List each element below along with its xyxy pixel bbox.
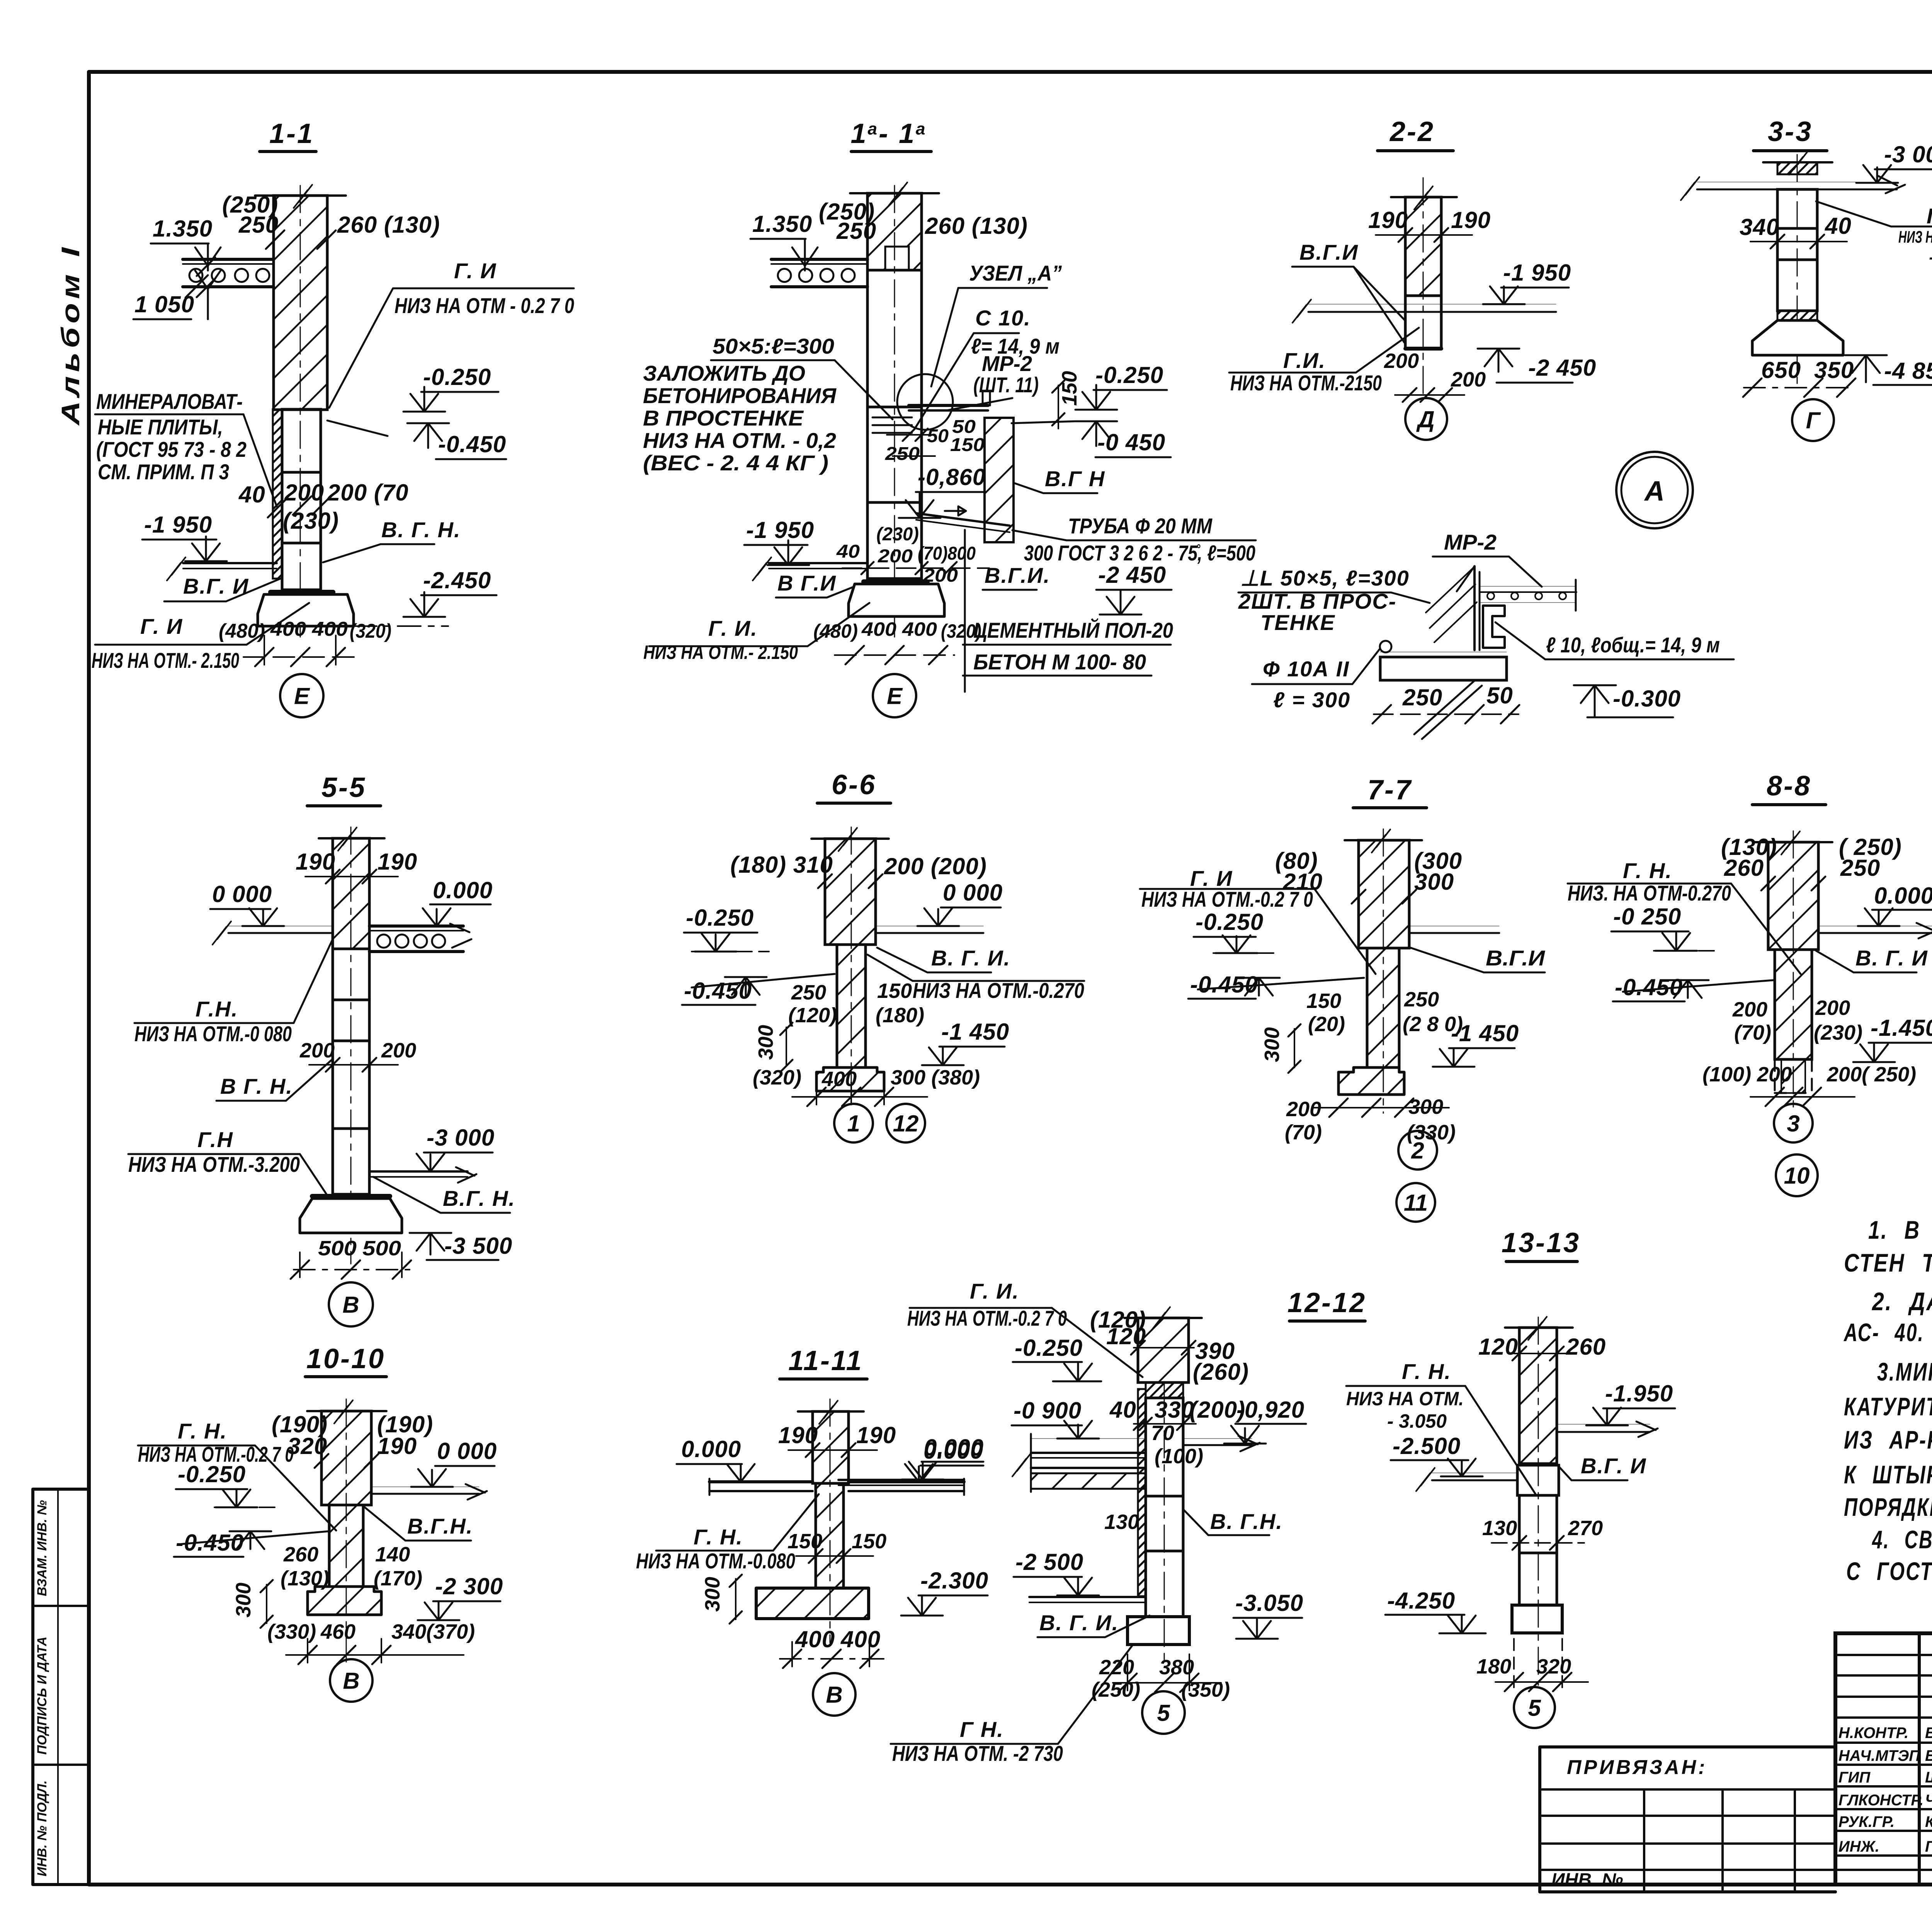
svg-text:НИЗ НА ОТМ.-0.080: НИЗ НА ОТМ.-0.080 [636,1549,795,1573]
svg-text:В.Г.И: В.Г.И [1486,946,1546,970]
svg-text:-0.300: -0.300 [1613,686,1681,712]
svg-text:150: 150 [852,1530,886,1553]
section 13-13 footing [1512,1605,1562,1633]
section 7-7 footing [1338,1067,1404,1095]
svg-text:250: 250 [791,981,826,1004]
section 13-13 blocks [1517,1465,1559,1495]
svg-text:250: 250 [1840,855,1880,881]
svg-text:В: В [342,1292,359,1318]
svg-text:- 3.050: - 3.050 [1387,1410,1447,1432]
svg-text:(230): (230) [1814,1021,1862,1044]
svg-text:Е: Е [294,683,310,709]
section 2-2 lower block [1405,347,1441,351]
svg-text:(70): (70) [1285,1121,1322,1144]
svg-text:(100) 200: (100) 200 [1702,1063,1792,1086]
svg-text:ГАДЛГОСК.Я: ГАДЛГОСК.Я [1925,1838,1932,1855]
section 2-2 column hatched [1405,197,1441,296]
svg-text:2ШТ. В ПРОС-: 2ШТ. В ПРОС- [1238,589,1396,613]
svg-text:Г. Н.: Г. Н. [694,1525,743,1549]
svg-text:Альбом I: Альбом I [56,243,85,426]
svg-text:Г. Н.: Г. Н. [1402,1359,1451,1384]
svg-text:-3 200: -3 200 [1929,248,1932,267]
svg-text:340(370): 340(370) [391,1620,475,1643]
section 1a-1a wall below slab [867,270,922,407]
svg-text:320: 320 [1536,1655,1571,1678]
svg-text:ГЛКОНСТР.: ГЛКОНСТР. [1838,1792,1923,1809]
svg-text:300 (380): 300 (380) [891,1066,980,1089]
svg-text:(480): (480) [813,620,858,642]
svg-text:200: 200 [878,546,913,567]
section 3-3 column top [1763,161,1832,163]
section 7-7 wall hatched [1359,840,1409,948]
svg-text:(230): (230) [283,508,339,534]
svg-text:МР-2: МР-2 [1444,530,1497,554]
svg-text:КОЛУШЕВА: КОЛУШЕВА [1925,1813,1932,1830]
svg-text:1: 1 [847,1111,860,1137]
svg-text:НИЗ НА ОТМ.-0.270: НИЗ НА ОТМ.-0.270 [913,978,1084,1003]
svg-text:-1.450: -1.450 [1871,1015,1932,1041]
svg-text:УЗЕЛ „А”: УЗЕЛ „А” [969,261,1062,285]
svg-text:-2 450: -2 450 [1098,562,1166,588]
svg-text:-0 450: -0 450 [1097,429,1165,455]
section 12-12 ground left lower [1029,1596,1146,1598]
svg-text:250: 250 [238,212,279,238]
section 8-8 dashed continuation [1775,1059,1812,1093]
svg-text:250: 250 [1402,684,1442,710]
svg-text:11-11: 11-11 [788,1345,863,1376]
svg-text:-0.250: -0.250 [1095,362,1163,388]
section 6-6 right slab [876,926,983,926]
svg-text:260: 260 [1566,1334,1606,1360]
svg-text:200: 200 [381,1039,416,1062]
svg-text:Ф 10А II: Ф 10А II [1263,657,1350,681]
svg-text:190: 190 [296,849,335,875]
svg-text:НИЗ НА ОТМ - 0.2 7 0: НИЗ НА ОТМ - 0.2 7 0 [395,293,574,318]
section 1a-1a MP-2 plate [909,404,988,407]
svg-text:-3 500: -3 500 [444,1233,512,1259]
svg-text:БЕГАНСКАЯ: БЕГАНСКАЯ [1925,1747,1932,1764]
svg-text:В. Г.Н.: В. Г.Н. [1210,1509,1283,1534]
svg-text:(70): (70) [1734,1021,1771,1044]
svg-text:В.Г. И: В.Г. И [183,574,249,598]
svg-text:300: 300 [754,1025,777,1060]
section 7-7 lower column hatched [1367,948,1399,1067]
svg-text:⊥L 50×5, ℓ=300: ⊥L 50×5, ℓ=300 [1240,566,1410,590]
svg-text:-0,920: -0,920 [1236,1397,1304,1423]
section 11-11 footing [756,1588,869,1619]
svg-text:1.350: 1.350 [752,211,812,237]
section 5-5 footing [312,1194,390,1199]
section 10-10 axis circle V [330,1659,372,1702]
detail slab right [1480,586,1577,587]
svg-text:(170): (170) [374,1567,422,1590]
svg-text:Г.Н: Г.Н [197,1127,233,1152]
detail standing plate [1473,566,1476,650]
section 6-6 lower column hatched [837,945,866,1067]
section 8-8 axis circles 3 10 [1774,1104,1813,1142]
svg-text:ИНВ. № ПОДЛ.: ИНВ. № ПОДЛ. [35,1780,49,1876]
svg-text:Г. И.: Г. И. [970,1279,1019,1303]
svg-text:НИЗ НА ОТМ.-0.2 7 0: НИЗ НА ОТМ.-0.2 7 0 [907,1306,1067,1330]
section 8-8 right slab [1818,926,1932,926]
svg-text:3-3: 3-3 [1768,116,1813,147]
svg-text:-4 850: -4 850 [1884,358,1932,384]
section 1-1 foundation blocks [282,409,321,472]
svg-text:НАЧ.МТЭП: НАЧ.МТЭП [1838,1747,1920,1764]
svg-text:-1 950: -1 950 [1503,260,1571,286]
svg-text:ГИП: ГИП [1838,1769,1871,1786]
section 11-11 axis circle V [813,1673,855,1716]
svg-text:250: 250 [1404,988,1439,1011]
section 3-3 slab crossing [1697,182,1897,182]
svg-text:270: 270 [1568,1517,1603,1540]
section 1a-1a floor slab left [771,258,867,261]
svg-text:250: 250 [836,218,876,244]
svg-text:260 (130): 260 (130) [337,212,440,238]
svg-text:ЗАЛОЖИТЬ ДО: ЗАЛОЖИТЬ ДО [643,361,805,385]
svg-text:НИЗ НА ОТМ.: НИЗ НА ОТМ. [1346,1388,1464,1410]
svg-text:460: 460 [320,1620,355,1643]
svg-text:РУК.ГР.: РУК.ГР. [1838,1813,1895,1830]
svg-text:1.350: 1.350 [153,216,213,242]
svg-text:7-7: 7-7 [1367,775,1412,805]
svg-text:В.Г.И: В.Г.И [1299,240,1359,264]
svg-text:МИНЕРАЛОВАТ-: МИНЕРАЛОВАТ- [96,389,243,414]
svg-text:В.Г.Н.: В.Г.Н. [407,1514,473,1538]
svg-text:В.Г.И.: В.Г.И. [985,563,1050,587]
section 3-3 axis circle G [1792,399,1834,441]
svg-text:НИЗ НА ОТМ.- 2.150: НИЗ НА ОТМ.- 2.150 [92,648,239,672]
svg-text:3: 3 [1787,1111,1799,1137]
section 11-11 slab band [709,1480,813,1483]
svg-text:5-5: 5-5 [321,772,366,803]
svg-text:ВЗАМ. ИНВ. №: ВЗАМ. ИНВ. № [35,1500,49,1596]
svg-text:-3 000: -3 000 [427,1125,495,1151]
svg-text:0 000: 0 000 [437,1438,497,1464]
svg-text:(ГОСТ 95 73 - 8 2: (ГОСТ 95 73 - 8 2 [96,437,247,461]
svg-text:-0 900: -0 900 [1014,1398,1082,1423]
svg-text:(320): (320) [350,620,391,642]
svg-text:200: 200 [1451,368,1486,391]
svg-text:(100): (100) [1155,1445,1203,1468]
svg-text:130: 130 [1482,1517,1517,1540]
svg-text:В.Г. Н.: В.Г. Н. [443,1186,515,1210]
svg-text:350: 350 [1814,357,1854,383]
svg-text:180: 180 [1476,1655,1511,1678]
svg-text:8-8: 8-8 [1767,771,1811,802]
section 1-1 floor slab left [183,258,274,261]
svg-text:БУХАРИНА: БУХАРИНА [1925,1725,1932,1742]
svg-text:500: 500 [318,1237,357,1260]
svg-text:190: 190 [856,1422,896,1448]
svg-text:4. СВАРКУ ПРОИЗВОДИТЬ ЭЛЕКТРОД: 4. СВАРКУ ПРОИЗВОДИТЬ ЭЛЕКТРОДАМИ ТИП Э-… [1872,1525,1932,1554]
svg-text:-4.250: -4.250 [1387,1588,1455,1614]
section 1-1 axis circle E [280,674,323,717]
svg-text:ЧЕРНЕЦКИЙ: ЧЕРНЕЦКИЙ [1925,1791,1932,1809]
svg-text:6-6: 6-6 [832,770,876,800]
svg-text:340: 340 [1740,214,1779,240]
section 1a-1a pier hatched [985,418,1014,542]
svg-text:300: 300 [1414,869,1454,895]
svg-text:Н.КОНТР.: Н.КОНТР. [1838,1725,1908,1742]
svg-text:НИЗ. НА ОТМ-0.270: НИЗ. НА ОТМ-0.270 [1568,881,1731,905]
svg-text:Г. Н.: Г. Н. [1623,858,1672,883]
svg-text:2-2: 2-2 [1389,116,1435,147]
svg-text:В Г. Н.: В Г. Н. [220,1074,293,1098]
section 10-10 lower column hatched [329,1505,363,1587]
svg-text:250: 250 [885,444,920,464]
section 6-6 footing [816,1067,884,1091]
svg-text:-0.250: -0.250 [1196,909,1264,935]
svg-text:МР-2: МР-2 [982,351,1032,376]
svg-text:0.000: 0.000 [1874,883,1932,909]
detail hatch diagonals [1426,568,1477,642]
svg-text:СТЕН ТОЛЩИНОЙ 380 ММ,: СТЕН ТОЛЩИНОЙ 380 ММ, [1844,1248,1932,1277]
svg-text:200: 200 [299,1039,335,1062]
svg-text:В. Г. И.: В. Г. И. [1039,1611,1119,1635]
svg-text:190: 190 [778,1422,818,1448]
section 1-1 center axis [300,186,301,642]
svg-text:Е: Е [887,683,903,709]
svg-text:50: 50 [927,426,949,446]
section 13-13 right slab [1557,1424,1650,1425]
section 12-12 insulation strip [1138,1389,1146,1596]
svg-text:190: 190 [1368,207,1408,233]
svg-text:(180): (180) [876,1004,924,1027]
svg-text:2. ДАННЫЙ ЛИСТ СМОТРЕТЬ СОВМЕС: 2. ДАННЫЙ ЛИСТ СМОТРЕТЬ СОВМЕСТНО С ЛИСТ… [1871,1287,1932,1316]
svg-text:-1.950: -1.950 [1605,1381,1673,1406]
section 8-8 wall hatched [1768,842,1818,950]
section 6-6 niz na otm -0.270 [913,980,1084,982]
svg-text:130: 130 [1104,1510,1139,1534]
svg-text:Г. И: Г. И [454,259,497,283]
svg-text:ℓ = 300: ℓ = 300 [1273,688,1350,712]
svg-text:40: 40 [836,541,860,562]
section 12-12 upper wall hatched [1138,1318,1189,1382]
svg-text:-0.250: -0.250 [1015,1335,1083,1361]
section 10-10 wall hatched [321,1411,371,1505]
svg-text:300: 300 [1260,1027,1284,1062]
svg-text:В Г.И: В Г.И [777,571,837,595]
detail channel C10 [1483,606,1505,648]
svg-text:150: 150 [877,979,912,1003]
svg-text:500: 500 [362,1237,401,1260]
section 6-6 axis circles 1 12 [834,1104,873,1142]
section 12-12 narrow column [1146,1382,1183,1398]
svg-text:(20): (20) [1308,1013,1345,1036]
svg-text:ЦЕМЕНТНЫЙ ПОЛ-20: ЦЕМЕНТНЫЙ ПОЛ-20 [973,618,1173,642]
svg-text:БЕТОН М 100- 80: БЕТОН М 100- 80 [973,650,1146,674]
section 5-5 column hatched [333,838,369,949]
svg-text:1а- 1а: 1а- 1а [850,118,927,149]
svg-text:1-1: 1-1 [269,118,314,149]
svg-text:200: 200 [1815,996,1850,1020]
svg-text:12: 12 [893,1111,919,1137]
svg-text:В ПРОСТЕНКЕ: В ПРОСТЕНКЕ [643,406,804,430]
svg-text:40: 40 [1825,213,1852,239]
privyazan block [1540,1747,1835,1892]
svg-text:НИЗ НА ОТМ. -2 730: НИЗ НА ОТМ. -2 730 [892,1741,1063,1765]
svg-text:НИЗ НА ОТМ.-3.200: НИЗ НА ОТМ.-3.200 [128,1152,300,1176]
section 5-5 slab right hollow [369,924,463,928]
svg-text:-2.450: -2.450 [423,567,491,593]
svg-text:2: 2 [1411,1138,1424,1164]
svg-text:Д: Д [1416,407,1434,432]
svg-text:400 400: 400 400 [861,618,937,640]
svg-text:11: 11 [1404,1190,1428,1216]
svg-text:0 000: 0 000 [943,880,1003,906]
svg-text:-1 950: -1 950 [144,512,212,538]
svg-text:-2 300: -2 300 [435,1573,503,1599]
svg-text:(350): (350) [1181,1678,1230,1701]
svg-text:3.МИНЕРАЛОВАТНЫЕ ПЛИТЫ НН САНТ: 3.МИНЕРАЛОВАТНЫЕ ПЛИТЫ НН САНТЕХНИЧЕСКОМ… [1877,1357,1932,1386]
svg-text:-0,860: -0,860 [918,464,986,490]
svg-text:(ВЕС - 2. 4 4 КГ ): (ВЕС - 2. 4 4 КГ ) [643,451,828,475]
svg-text:НЫЕ ПЛИТЫ,: НЫЕ ПЛИТЫ, [98,415,223,439]
detail bottom plate [1380,652,1507,652]
section 2-2 column lower white [1405,296,1441,349]
svg-text:40: 40 [238,482,265,507]
svg-text:0.000: 0.000 [924,1435,984,1461]
svg-text:(260): (260) [1193,1359,1249,1385]
svg-text:ИНВ. №: ИНВ. № [1551,1870,1623,1890]
svg-text:АС- 40.: АС- 40. [1844,1318,1924,1347]
svg-text:КАТУРИТЬ ЦЕМЕНТНО-ПЕСЧАНЫМ РАС: КАТУРИТЬ ЦЕМЕНТНО-ПЕСЧАНЫМ РАСТВОРОМ М10… [1844,1392,1932,1421]
section 1-1 wall column hatched [274,196,327,410]
section 1-1 ground line left [183,562,277,564]
svg-text:140: 140 [375,1543,410,1566]
svg-text:0.000: 0.000 [681,1436,741,1462]
svg-text:-0.250: -0.250 [423,364,491,390]
section 6-6 wall hatched [825,839,876,945]
svg-text:50×5:ℓ=300: 50×5:ℓ=300 [713,334,834,358]
svg-text:-2.500: -2.500 [1393,1433,1461,1459]
svg-text:70: 70 [1151,1422,1174,1445]
section 2-2 slab [1308,304,1556,305]
svg-text:200 (70: 200 (70 [327,480,409,506]
section 13-13 column hatched [1519,1328,1557,1464]
section 12-12 left floor slabs [1031,1438,1146,1439]
svg-text:ℓ 10, ℓобщ.= 14, 9 м: ℓ 10, ℓобщ.= 14, 9 м [1546,633,1720,657]
svg-text:НИЗ НА ОТМ.-0.2 7 0: НИЗ НА ОТМ.-0.2 7 0 [1141,887,1313,911]
section 8-8 lower column hatched [1775,950,1812,1059]
svg-text:ИЗ АР-РЫ Ф2ММ С ЯЧЕЙКОЙ 20×20: ИЗ АР-РЫ Ф2ММ С ЯЧЕЙКОЙ 20×20 - ВЕС 1М² … [1844,1425,1932,1454]
svg-text:150: 150 [787,1530,822,1553]
svg-text:120: 120 [1478,1334,1518,1360]
svg-text:-0.450: -0.450 [1190,972,1258,998]
svg-text:400: 400 [795,1626,835,1652]
section 5-5 axis circle V [329,1282,373,1326]
svg-text:190: 190 [377,1433,417,1459]
svg-text:(320): (320) [753,1066,801,1089]
svg-text:В. Г. И.: В. Г. И. [931,946,1010,970]
svg-text:260 (130): 260 (130) [925,213,1028,239]
section 1a-1a wall column [867,193,922,270]
section 5-5 column blocks [333,949,369,1000]
svg-text:-1 950: -1 950 [746,517,814,543]
svg-text:10-10: 10-10 [306,1343,385,1374]
svg-text:В.Г Н: В.Г Н [1045,466,1105,491]
svg-text:В. Г. И: В. Г. И [1855,946,1928,970]
svg-text:-0.450: -0.450 [438,431,506,457]
svg-text:13-13: 13-13 [1502,1227,1580,1258]
section 10-10 right slab [371,1486,479,1487]
section 13-13 axis circle 5 [1514,1687,1555,1728]
svg-text:А: А [1644,476,1665,507]
svg-text:(120): (120) [788,1004,837,1027]
svg-text:300: 300 [701,1577,724,1612]
svg-text:ПОРЯДКЕ С РАЗМЕРАМИ ЯЧЕЙКИ 600: ПОРЯДКЕ С РАЗМЕРАМИ ЯЧЕЙКИ 600×600 С ПОС… [1844,1492,1932,1521]
svg-text:0.000: 0.000 [433,877,493,903]
svg-text:Г.Н.: Г.Н. [196,997,238,1021]
svg-text:ШЕЛЕВНЛЯ: ШЕЛЕВНЛЯ [1925,1769,1932,1786]
svg-text:-0.250: -0.250 [178,1461,246,1487]
section 12-12 right slab [1183,1438,1252,1439]
section 11-11 column hatched upper [813,1411,849,1483]
svg-text:Г. Н.: Г. Н. [1927,204,1932,228]
svg-text:(230): (230) [876,524,919,545]
svg-text:(70)800: (70)800 [918,543,976,564]
svg-text:К ШТЫРЯМ ИЗ Ф8АI ℓ= 250, ЗАЛОЖ: К ШТЫРЯМ ИЗ Ф8АI ℓ= 250, ЗАЛОЖЕННОМ В КЛ… [1844,1460,1932,1489]
svg-text:НИЗ НА ОТМ. - 0,2: НИЗ НА ОТМ. - 0,2 [643,428,836,453]
svg-text:1. В КРУГЛЫХ СКОБКАХ ДАНЫ РАЗМ: 1. В КРУГЛЫХ СКОБКАХ ДАНЫ РАЗМЕРЫ ДЛЯ ВА… [1868,1216,1932,1244]
svg-text:НИЗ НА ОТМ.: НИЗ НА ОТМ. [1898,228,1932,247]
svg-text:200: 200 [1384,349,1419,373]
svg-text:12-12: 12-12 [1287,1287,1366,1318]
section 1a-1a uzel A circle [897,374,953,430]
svg-text:260: 260 [1724,855,1764,881]
svg-text:Г.И.: Г.И. [1283,348,1326,373]
section 12-12 footing [1128,1617,1189,1645]
section 11-11 column hatched lower [816,1483,844,1588]
svg-text:НИЗ НА ОТМ.-0 080: НИЗ НА ОТМ.-0 080 [134,1021,292,1046]
svg-text:50: 50 [1486,683,1513,708]
svg-text:190: 190 [1451,207,1491,233]
section 1-1 insulation strip [273,409,282,579]
svg-text:ТЕНКЕ: ТЕНКЕ [1260,610,1335,635]
svg-text:190: 190 [378,849,417,875]
svg-text:50: 50 [952,417,976,437]
svg-text:(330): (330) [267,1620,316,1643]
section 13-13 left slab [1432,1473,1517,1473]
svg-text:10: 10 [1784,1163,1810,1189]
svg-text:-2.300: -2.300 [920,1568,988,1594]
svg-text:С 10.: С 10. [975,306,1031,330]
svg-text:260: 260 [283,1543,318,1566]
section 5-5 ground right [369,1170,468,1173]
title block table [1835,1633,1932,1885]
svg-text:НИЗ НА ОТМ.- 2.150: НИЗ НА ОТМ.- 2.150 [643,642,798,663]
svg-text:(180) 310: (180) 310 [730,852,833,878]
svg-text:В: В [343,1668,359,1694]
svg-text:-1 450: -1 450 [1451,1020,1519,1046]
svg-text:1 050: 1 050 [134,291,194,317]
section 1-1 footing [270,590,333,594]
svg-text:Г. Н.: Г. Н. [178,1419,227,1443]
svg-text:400: 400 [840,1626,881,1652]
svg-text:БЕТОНИРОВАНИЯ: БЕТОНИРОВАНИЯ [643,383,837,408]
svg-text:В: В [826,1682,842,1708]
section 5-5 slab left [228,926,333,926]
svg-text:Г. И: Г. И [140,614,183,638]
section 1a-1a axis circle E [873,674,916,717]
svg-text:Г. И.: Г. И. [708,616,758,640]
section 3-3 column blocks [1777,189,1817,228]
section 10-10 footing [308,1587,381,1615]
svg-text:ИНЖ.: ИНЖ. [1838,1838,1879,1855]
svg-text:0 000: 0 000 [212,881,272,907]
svg-text:150: 150 [950,435,985,455]
